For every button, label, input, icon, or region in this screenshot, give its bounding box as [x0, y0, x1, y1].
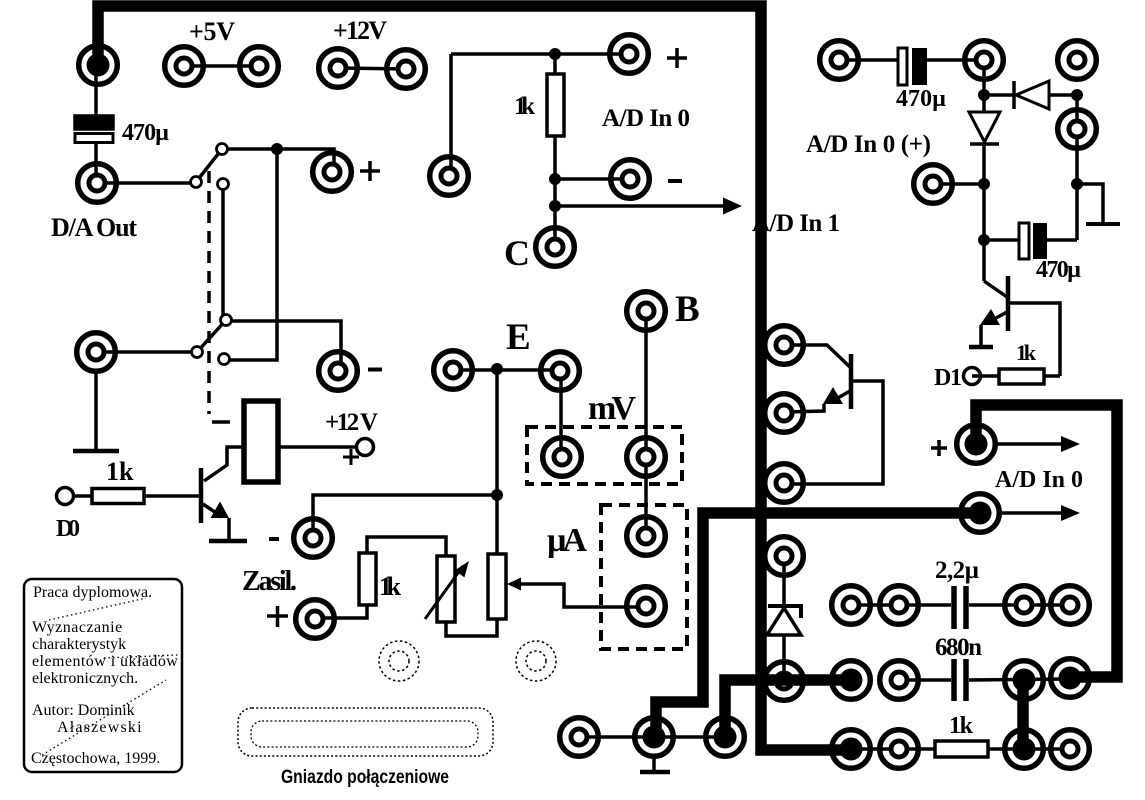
label + sign [667, 48, 687, 68]
connector B [627, 292, 666, 331]
connector switch minus [319, 352, 358, 391]
svg-text:680n: 680n [935, 634, 982, 661]
wire thick bus from + connector over to 680n right connector [976, 405, 1117, 677]
svg-text:Praca dyplomowa.: Praca dyplomowa. [33, 584, 152, 601]
connector D/A Out [78, 164, 117, 203]
label + sign Zasil [267, 606, 288, 627]
resistor R5 1k [935, 741, 988, 757]
wire capacitor to D/A Out connector [94, 143, 98, 183]
switch S1a blade [196, 149, 222, 182]
svg-text:A/D In 0: A/D In 0 [995, 467, 1083, 493]
capacitor 470µ horizontal polarized [898, 48, 907, 85]
capacitor C4 2,2µ plates [951, 586, 957, 629]
svg-text:470µ: 470µ [896, 86, 946, 112]
LEFTLOWER [56, 352, 378, 542]
svg-text:1k: 1k [949, 713, 974, 739]
wire connector to capacitor [94, 65, 98, 118]
label + near connector [360, 161, 380, 181]
zener D2 wire top [782, 556, 786, 604]
svg-text:1k: 1k [106, 457, 134, 486]
node junction hook [1071, 178, 1083, 190]
GNIAZDO [238, 708, 493, 788]
wire Zasil+ connector to 1k resistor [315, 605, 367, 618]
connector Zasil minus [294, 519, 333, 558]
terminal D0 [57, 488, 74, 505]
svg-text:+12V: +12V [333, 16, 387, 45]
terminal D1 [964, 368, 981, 385]
wire connector to cap [839, 58, 898, 62]
BOTTOMTRIO [579, 737, 725, 772]
switch S1b blade [197, 320, 226, 352]
connector AD0plus mid [914, 165, 953, 204]
svg-text:B: B [675, 289, 700, 330]
connector switch plus [313, 153, 352, 192]
wire resistor down to C connector [553, 136, 557, 247]
connector row1 b [880, 586, 919, 625]
wire row2 [899, 678, 951, 682]
svg-text:C: C [504, 233, 530, 273]
wire connector to ground [94, 373, 98, 450]
label + sign [343, 449, 359, 465]
svg-text:A/D In 1: A/D In 1 [752, 210, 840, 237]
wire corner from top rail down to lone connector [449, 54, 453, 176]
svg-text:elektronicznych.: elektronicznych. [32, 670, 138, 687]
wire row3 [851, 747, 935, 751]
svg-text:E: E [506, 317, 531, 358]
svg-text:1k: 1k [379, 572, 402, 601]
wire E row [453, 368, 560, 372]
connector trio mid filled [635, 718, 674, 757]
label + sign [931, 440, 947, 456]
connector Zasil plus [296, 600, 335, 639]
connector left lower [77, 333, 116, 372]
wire diode to lower junctions [982, 144, 986, 281]
connector lone mid [430, 157, 469, 196]
wire S1a throw2 down to S1b throw1 [221, 189, 225, 315]
connector row3 d [1051, 730, 1090, 769]
svg-text:Wyznaczanie: Wyznaczanie [32, 619, 123, 636]
wire right vertical [1075, 129, 1079, 240]
connector row3 a filled [832, 730, 871, 769]
terminal +12V circle [357, 439, 374, 456]
wire relay to +12V terminal [278, 445, 357, 449]
svg-text:A/D In 0: A/D In 0 [602, 105, 690, 132]
transistor Q1 base bar [199, 468, 204, 523]
pot wiper arrow [507, 578, 521, 591]
transistor Q1 emitter [203, 504, 222, 517]
svg-text:470µ: 470µ [122, 120, 169, 146]
connector µA bottom [627, 587, 666, 626]
connector trio left [560, 718, 599, 757]
wire D0 to resistor [74, 494, 92, 498]
box mV dashed [527, 427, 682, 484]
connector trio right filled [706, 718, 745, 757]
transistor Q3 base bar [1006, 276, 1011, 331]
ground bar [1086, 222, 1120, 226]
box rounded [24, 579, 182, 772]
wire B connector down to mV right connector [644, 311, 648, 457]
wire top rail to + connector [451, 52, 629, 56]
switch contact circles [191, 144, 232, 365]
hole right [516, 641, 556, 681]
transistor Q2 base wire [784, 345, 851, 368]
wire thick bus from ground-row connector up to 680n-row connector [725, 680, 853, 739]
node junction minus row [549, 173, 561, 185]
connector AD0 arrow lower filled [961, 494, 1000, 533]
wire thick mid bus A/D In 0 to ground connector [656, 513, 979, 739]
svg-text:D0: D0 [56, 516, 80, 542]
wire D/A Out connector to switch pole [97, 181, 191, 185]
svg-text:D/A Out: D/A Out [51, 213, 137, 242]
ground bar [73, 449, 119, 454]
connector row3 c filled [1005, 730, 1044, 769]
svg-text:D1: D1 [934, 365, 962, 391]
node junction [978, 89, 990, 101]
wire RV1 bottom to pot bottom [446, 619, 497, 636]
socket outer [238, 708, 493, 756]
arrow A/D In 0 lower [1002, 511, 1061, 515]
ground bar Q1 [209, 539, 247, 544]
potentiometer RV2 body [488, 554, 506, 619]
hole left [379, 641, 419, 681]
connector AD0 arrow plus filled [957, 425, 996, 464]
svg-text:mV: mV [588, 390, 636, 427]
transistor Q3 collector [1008, 303, 1060, 376]
diode D3 pointing left [984, 93, 1014, 97]
node junction dot E row [491, 363, 503, 375]
connector C [536, 228, 575, 267]
connector AD0 minus [611, 160, 650, 199]
connector row2 a filled [832, 661, 871, 700]
node junction dot on pot feed [491, 489, 503, 501]
svg-text:µA: µA [547, 522, 587, 559]
wire 1k top to variable resistor top [367, 537, 446, 556]
FILLED-CONNECTORS [79, 46, 1090, 769]
connector rightcol 2 [765, 394, 804, 433]
connector +12V a [319, 49, 358, 88]
zener D2 cathode bar [768, 606, 801, 618]
node junction arrow row [549, 200, 561, 212]
wire connector down to junction [982, 60, 986, 112]
zener D2 triangle [767, 608, 801, 635]
connector row3 b [880, 730, 919, 769]
connector topright c [1058, 41, 1097, 80]
wire thick link 680n to 1k row [1017, 678, 1029, 750]
connector row2 b [880, 661, 919, 700]
wire E right connector down to mV left connector [559, 371, 563, 457]
wire left connector to S1b pole [96, 350, 192, 354]
wire row1 [851, 603, 951, 607]
transistor Q2 base bar [849, 354, 854, 409]
TOPRIGHT [806, 48, 1120, 391]
wire Zasil- connector up and right to pot junction [313, 495, 497, 538]
svg-text:2,2µ: 2,2µ [935, 557, 979, 584]
node junction at connector row [978, 178, 990, 190]
resistor R4 1k [999, 369, 1044, 384]
connector topright b [965, 41, 1004, 80]
node junction dot [271, 143, 283, 155]
wire trio [579, 735, 725, 739]
connector E right [541, 352, 580, 391]
node junction cap row [978, 234, 990, 246]
connector row2 d filled [1051, 659, 1090, 698]
capacitor C3 470µ polarized [1019, 223, 1029, 259]
wire junction to cap C3 [984, 238, 1019, 242]
connector AD0 plus [610, 35, 649, 74]
ZASIL [242, 369, 646, 636]
MOUNTING-HOLES [379, 641, 556, 681]
svg-text:charakterystyk: charakterystyk [32, 636, 126, 653]
wire D1 to resistor [972, 374, 999, 378]
connector +5V a [165, 47, 204, 86]
svg-text:elementów i układów: elementów i układów [32, 653, 178, 670]
wire switch ganged dashed link [207, 171, 211, 414]
svg-text:+12 V: +12 V [325, 409, 378, 436]
connector row1 a [832, 586, 871, 625]
TOPMID [451, 48, 840, 273]
BOTTOMGRID [851, 557, 1070, 757]
wire pot feed vertical [495, 369, 499, 554]
SWITCH [191, 143, 383, 422]
wire cap to right vertical [1047, 238, 1077, 242]
arrow A/D In 1 [555, 204, 723, 208]
connector row1 d [1051, 586, 1090, 625]
RIGHTCOL [767, 345, 883, 681]
transistor Q2 emitter [836, 391, 850, 399]
connector E left [434, 351, 473, 390]
capacitor C5 680n plates [951, 659, 957, 701]
connector mV right [627, 438, 666, 477]
svg-text:A/D In 0 (+): A/D In 0 (+) [806, 131, 931, 158]
INFOBOX [24, 579, 182, 772]
transistor Q3 base wire [984, 281, 1007, 297]
wire mV right to µA top [644, 457, 648, 536]
connector +5V b [240, 47, 279, 86]
wire resistor to base [144, 494, 199, 498]
resistor R3 1k vertical [547, 74, 564, 136]
wire zener to connector [782, 636, 786, 681]
connector row2 c filled [1005, 661, 1044, 700]
connector topright d [1058, 110, 1097, 149]
svg-text:1k: 1k [514, 93, 535, 120]
node junction top rail [549, 48, 561, 60]
wire S1a to junction and + connector [227, 149, 334, 172]
resistor R2 1k vertical [359, 553, 376, 605]
transistor Q1 collector [204, 447, 244, 481]
wire hook to ground [1077, 184, 1103, 222]
connector mV left [543, 438, 582, 477]
label - near minus connector [368, 368, 382, 372]
wire cap to connector [927, 58, 984, 62]
capacitor 470µ polarized top-left [75, 116, 113, 129]
wire junction down to S1b throw [230, 149, 277, 360]
connector rightcol 1 [765, 326, 804, 365]
socket inner [251, 721, 478, 747]
EMVUA [453, 289, 700, 649]
wire S1b throw1 to - connector [231, 321, 341, 371]
connector rightcol 5 [765, 662, 804, 701]
wire +5V pair [184, 64, 259, 68]
resistor R1 1k [92, 489, 144, 504]
connector +12V b [387, 50, 426, 89]
connector D/A top filled [79, 46, 118, 85]
connector rightcol 3 [765, 464, 804, 503]
RIGHTARROWS [931, 436, 1083, 521]
connector row1 c [1005, 586, 1044, 625]
connector µA top [627, 517, 666, 556]
svg-text:Gniazdo połączeniowe: Gniazdo połączeniowe [281, 767, 449, 788]
label - sign [269, 537, 279, 541]
connector rightcol 4 [765, 537, 804, 576]
box µA dashed [601, 505, 687, 649]
TOPLEFT [51, 16, 406, 242]
arrow A/D In 0 upper [997, 442, 1061, 446]
node junction right [1071, 89, 1083, 101]
ground below middle connector [652, 758, 656, 771]
wire junction up to connector [1075, 95, 1079, 129]
diode D4 pointing down [969, 112, 1000, 142]
variable resistor RV1 [437, 556, 455, 622]
connector topright a [820, 41, 859, 80]
svg-text:+5V: +5V [189, 17, 235, 46]
relay K1 coil [244, 401, 278, 482]
svg-text:Autor: Dominik: Autor: Dominik [32, 702, 135, 719]
svg-text:1k: 1k [1016, 340, 1037, 365]
wire junction to - connector [555, 177, 630, 181]
svg-text:Ałaszewski: Ałaszewski [57, 719, 143, 736]
transistor Q3 emitter [996, 312, 1007, 318]
transistor Q2 collector [784, 381, 883, 484]
svg-text:470µ: 470µ [1036, 257, 1081, 283]
svg-text:Częstochowa, 1999.: Częstochowa, 1999. [31, 750, 160, 767]
ground bar Q3 [969, 345, 993, 350]
arrow across RV1 [425, 566, 463, 619]
dotted fold lines [42, 598, 178, 755]
wire thick bus from D/A top connector along top edge down right side to 1k-row connector [98, 6, 852, 750]
wire junction to resistor [553, 54, 557, 74]
wire connector to junction [933, 182, 984, 186]
label - sign [668, 179, 682, 183]
wire +12V pair [338, 68, 406, 69]
svg-text:Zasil.: Zasil. [242, 566, 297, 597]
wire resistor to collector [1044, 374, 1060, 378]
